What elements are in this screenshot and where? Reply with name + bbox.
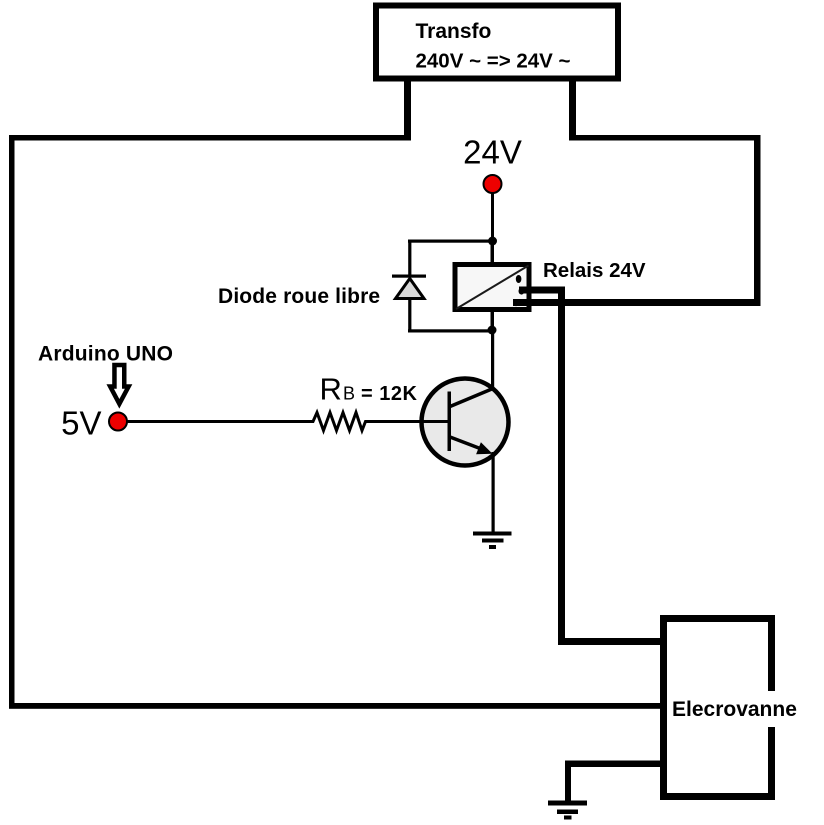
svg-text:Relais 24V: Relais 24V: [543, 259, 646, 282]
svg-text:240V ~ => 24V ~: 240V ~ => 24V ~: [416, 50, 571, 73]
svg-text:Diode roue libre: Diode roue libre: [218, 285, 380, 308]
svg-text:B: B: [343, 384, 355, 404]
svg-text:24V: 24V: [463, 134, 522, 171]
svg-text:Elecrovanne: Elecrovanne: [672, 698, 797, 721]
svg-text:5V: 5V: [61, 405, 101, 442]
svg-text:= 12K: = 12K: [361, 383, 417, 405]
svg-text:Transfo: Transfo: [416, 20, 492, 43]
svg-text:R: R: [320, 372, 342, 407]
svg-text:Arduino UNO: Arduino UNO: [38, 343, 173, 366]
